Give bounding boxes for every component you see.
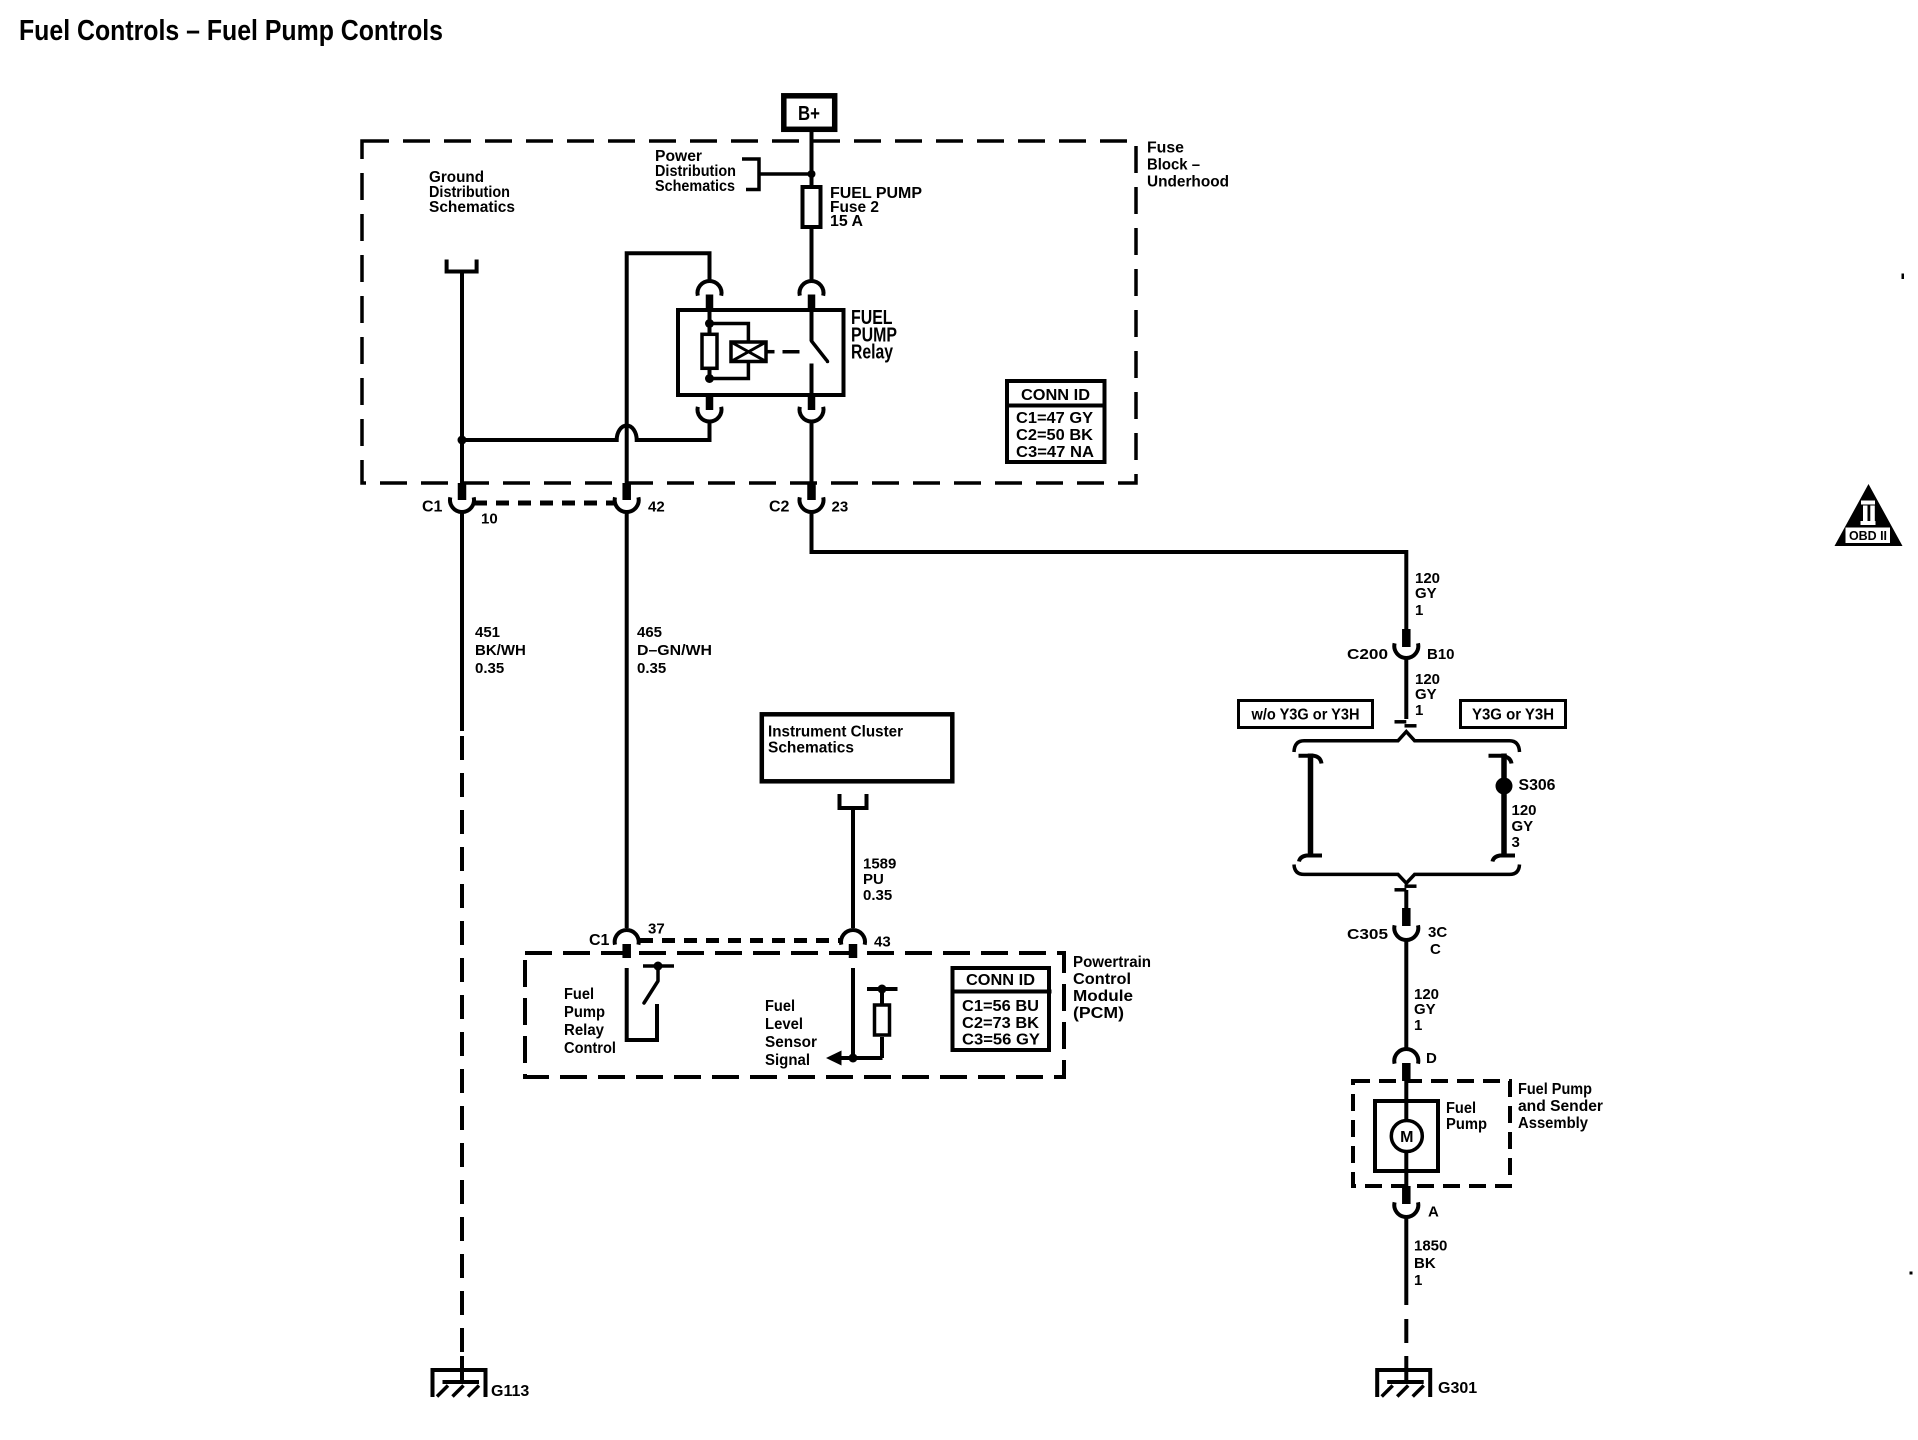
jumper wire with hop over 465 wire xyxy=(462,426,710,441)
wire 465 D-GN/WH: 42 to PCM C1-37 xyxy=(625,512,629,928)
ground G301 xyxy=(1375,1368,1432,1397)
right option branch: top serif xyxy=(1489,756,1512,764)
left option branch wire xyxy=(1308,754,1314,857)
relay pin 30 stub xyxy=(808,295,816,311)
svg-text:Powertrain: Powertrain xyxy=(1073,954,1151,971)
driver rail bar xyxy=(643,964,674,968)
PCM pullup resistor xyxy=(875,1005,890,1035)
scan speck lower right xyxy=(1910,1272,1913,1275)
svg-text:C1: C1 xyxy=(589,932,610,949)
svg-text:Control: Control xyxy=(564,1040,616,1057)
CONN ID table (fuse block) xyxy=(1007,381,1105,462)
svg-text:3: 3 xyxy=(1512,834,1520,851)
svg-text:0.35: 0.35 xyxy=(637,660,666,677)
connector C305 3C/C: stub xyxy=(1402,908,1411,926)
svg-text:23: 23 xyxy=(832,499,849,516)
junction dot top of coil xyxy=(705,319,714,328)
connector C305: arc xyxy=(1394,925,1418,940)
svg-text:GY: GY xyxy=(1414,1001,1436,1018)
svg-text:w/o Y3G or Y3H: w/o Y3G or Y3H xyxy=(1251,707,1360,724)
svg-text:Sensor: Sensor xyxy=(765,1034,817,1051)
junction dot bottom of coil xyxy=(705,374,714,383)
svg-text:10: 10 xyxy=(481,511,498,528)
connector C200 B10: stub xyxy=(1402,629,1411,647)
relay pin 86 stub (bottom left) xyxy=(706,395,714,410)
junction dot at fuse feed xyxy=(808,170,816,178)
wire C305 to D xyxy=(1404,940,1408,1050)
junction dot signal xyxy=(849,1054,858,1063)
option box: Y3G or Y3H xyxy=(1461,701,1566,728)
battery B+ box xyxy=(784,96,835,130)
wire: ground stub down to junction xyxy=(460,274,464,443)
svg-text:BK: BK xyxy=(1414,1255,1436,1272)
svg-text:Fuel: Fuel xyxy=(765,998,795,1015)
svg-text:0.35: 0.35 xyxy=(475,660,504,677)
svg-text:Module: Module xyxy=(1073,988,1133,1005)
resistor to internal rail xyxy=(880,989,884,1005)
bottom option brace xyxy=(1294,865,1520,884)
connector D arc xyxy=(1394,1049,1418,1064)
svg-text:GY: GY xyxy=(1415,585,1437,602)
svg-text:CONN ID: CONN ID xyxy=(1021,387,1090,404)
internal rail bar xyxy=(867,987,898,991)
svg-text:and Sender: and Sender xyxy=(1518,1098,1603,1115)
connector pin 42: stub xyxy=(622,483,631,500)
svg-text:1850: 1850 xyxy=(1414,1238,1447,1255)
svg-text:Block –: Block – xyxy=(1147,157,1200,174)
left option branch: bottom serif xyxy=(1299,856,1322,862)
svg-text:1: 1 xyxy=(1415,702,1423,719)
fuel pump and sender assembly dashed box xyxy=(1353,1081,1510,1186)
wire to C305 xyxy=(1404,890,1408,908)
option box: w/o Y3G or Y3H xyxy=(1239,701,1373,728)
junction dot ground/relay xyxy=(458,436,467,445)
svg-text:1: 1 xyxy=(1414,1017,1422,1034)
svg-text:1: 1 xyxy=(1415,602,1423,619)
relay pin 87 stub (bottom right) xyxy=(808,395,816,410)
svg-text:465: 465 xyxy=(637,624,662,641)
svg-text:(PCM): (PCM) xyxy=(1073,1005,1124,1022)
PCM pin 43 stub xyxy=(849,944,858,958)
wire B+ to fuse xyxy=(810,132,814,186)
wire pin86 down xyxy=(708,422,712,443)
driver pivot dot xyxy=(654,962,663,971)
dotted connector line 37-43 xyxy=(640,938,841,943)
wire 1589 inside PCM xyxy=(851,968,855,1058)
relay coil branch wire xyxy=(708,310,712,336)
left option branch: top serif xyxy=(1299,756,1322,764)
wire 1589 PU: cluster to PCM 43 xyxy=(851,810,855,928)
connector C200 B10: arc xyxy=(1394,643,1418,658)
svg-text:Signal: Signal xyxy=(765,1052,810,1069)
svg-text:GY: GY xyxy=(1415,686,1437,703)
relay pin 87 connector arc xyxy=(800,407,824,422)
svg-text:0.35: 0.35 xyxy=(863,887,892,904)
relay pin 30 connector arc (top right) xyxy=(800,281,824,296)
ground distribution continuation stub xyxy=(445,260,479,272)
PCM pin C1-37 stub xyxy=(622,944,631,958)
coil loop wires xyxy=(710,324,749,344)
bracket from Power Distribution label to wire xyxy=(742,159,759,190)
instrument cluster continuation stub xyxy=(838,794,869,808)
connector C2 pin 23: arc xyxy=(800,497,824,512)
svg-text:Schematics: Schematics xyxy=(655,178,735,195)
wire 451 BK/WH: C1-10 to G113 xyxy=(460,512,464,731)
wire fuse to relay pin 30 xyxy=(810,227,814,281)
Instrument Cluster Schematics box xyxy=(762,714,953,781)
svg-text:451: 451 xyxy=(475,624,500,641)
fuse F2: FUEL PUMP Fuse 2 15A xyxy=(803,187,821,227)
svg-text:B10: B10 xyxy=(1427,646,1455,663)
connector C1 pin 10: arc xyxy=(450,497,474,512)
wire end jog above top brace xyxy=(1395,720,1407,724)
relay pin 85 stub xyxy=(706,295,714,311)
wire 1850 BK: A to G301 xyxy=(1404,1217,1408,1305)
svg-text:Fuel: Fuel xyxy=(1446,1100,1476,1117)
wire below C200 xyxy=(1404,658,1408,719)
connector C1 pin 10: stub xyxy=(458,483,467,500)
rail junction dot xyxy=(878,985,887,994)
svg-text:OBD II: OBD II xyxy=(1849,529,1887,543)
relay resistor xyxy=(702,334,717,368)
svg-text:C3=56 GY: C3=56 GY xyxy=(962,1032,1040,1049)
svg-text:G301: G301 xyxy=(1438,1380,1477,1397)
scan speck right edge xyxy=(1902,274,1905,280)
connector A: arc xyxy=(1394,1202,1418,1217)
svg-text:C1=56 BU: C1=56 BU xyxy=(962,998,1039,1015)
fuel pump inner box xyxy=(1375,1101,1438,1171)
wire C2-23 over to right side xyxy=(812,512,1407,629)
ground G113 xyxy=(431,1368,488,1397)
svg-text:Fuel Controls – Fuel Pump Cont: Fuel Controls – Fuel Pump Controls xyxy=(19,15,443,47)
svg-text:Assembly: Assembly xyxy=(1518,1115,1588,1132)
PCM driver: wire from 37 down and U to contact xyxy=(627,968,657,1040)
svg-text:C2: C2 xyxy=(769,499,790,516)
svg-text:D: D xyxy=(1426,1050,1437,1067)
svg-text:Schematics: Schematics xyxy=(429,199,515,216)
svg-text:BK/WH: BK/WH xyxy=(475,642,526,659)
svg-text:M: M xyxy=(1400,1129,1413,1146)
svg-text:PU: PU xyxy=(863,871,884,888)
motor M circle xyxy=(1391,1121,1422,1152)
svg-text:C2=73 BK: C2=73 BK xyxy=(962,1015,1039,1032)
svg-text:3C: 3C xyxy=(1428,924,1447,941)
connector A: stub xyxy=(1402,1186,1411,1204)
CONN ID table (PCM) xyxy=(953,968,1050,1050)
relay solenoid coil (box with X) xyxy=(731,342,766,362)
relay switch upper contact xyxy=(810,310,814,341)
svg-text:42: 42 xyxy=(648,499,665,516)
right option branch wire xyxy=(1501,754,1507,857)
wire pin87 down to C2 xyxy=(810,422,814,484)
svg-text:Pump: Pump xyxy=(1446,1116,1487,1133)
relay K: FUEL PUMP Relay box xyxy=(678,310,844,395)
svg-text:C2=50 BK: C2=50 BK xyxy=(1016,427,1093,444)
svg-text:Underhood: Underhood xyxy=(1147,174,1229,191)
svg-text:C3=47 NA: C3=47 NA xyxy=(1016,444,1094,461)
svg-text:1589: 1589 xyxy=(863,856,896,873)
svg-text:B+: B+ xyxy=(798,103,820,125)
svg-text:C200: C200 xyxy=(1347,646,1388,663)
svg-text:Fuse: Fuse xyxy=(1147,140,1184,157)
connector pin 42: arc xyxy=(615,497,639,512)
relay pin 85 connector arc (top left) xyxy=(698,281,722,296)
fuse block - underhood dashed box xyxy=(362,141,1136,483)
connector C2 pin 23: stub xyxy=(807,483,816,500)
connector D stub xyxy=(1402,1063,1411,1081)
svg-text:C: C xyxy=(1430,941,1441,958)
wire motor to A xyxy=(1404,1152,1408,1187)
svg-text:Control: Control xyxy=(1073,971,1131,988)
svg-text:D–GN/WH: D–GN/WH xyxy=(637,642,712,659)
splice S306 xyxy=(1496,778,1513,795)
svg-text:C305: C305 xyxy=(1347,926,1388,943)
PCM pin 43 arc xyxy=(841,930,865,945)
OBD II symbol xyxy=(1835,484,1903,546)
wire D into pump xyxy=(1404,1081,1408,1120)
svg-text:G113: G113 xyxy=(491,1383,529,1400)
signal node arrow xyxy=(826,1051,842,1066)
svg-text:Relay: Relay xyxy=(851,342,894,364)
svg-text:C1=47 GY: C1=47 GY xyxy=(1016,410,1093,427)
svg-text:120: 120 xyxy=(1512,802,1537,819)
PCM dashed box xyxy=(525,953,1064,1077)
svg-text:GY: GY xyxy=(1512,818,1534,835)
pullup resistor leg xyxy=(880,1037,884,1058)
PCM pin C1-37 arc xyxy=(615,930,639,945)
svg-text:Level: Level xyxy=(765,1016,803,1033)
wire junction down to C1 pin 10 xyxy=(460,440,464,484)
wire start jog below bottom brace xyxy=(1405,884,1417,888)
svg-text:Pump: Pump xyxy=(564,1004,605,1021)
mechanical link dashes xyxy=(766,350,775,354)
svg-text:Fuel Pump: Fuel Pump xyxy=(1518,1081,1592,1098)
svg-text:Schematics: Schematics xyxy=(768,740,854,757)
svg-text:A: A xyxy=(1428,1204,1439,1221)
svg-text:C1: C1 xyxy=(422,499,443,516)
svg-text:37: 37 xyxy=(648,921,665,938)
svg-text:Fuel: Fuel xyxy=(564,986,594,1003)
dotted connector line C1-42 xyxy=(474,501,615,506)
svg-text:CONN ID: CONN ID xyxy=(966,972,1035,989)
wire resistor bottom xyxy=(708,368,712,381)
relay switch lower contact xyxy=(810,364,814,396)
svg-text:15 A: 15 A xyxy=(830,213,863,230)
svg-text:S306: S306 xyxy=(1519,777,1556,794)
top option brace xyxy=(1294,732,1520,752)
right option branch: bottom serif xyxy=(1493,856,1516,862)
svg-text:1: 1 xyxy=(1414,1272,1422,1289)
svg-text:Instrument Cluster: Instrument Cluster xyxy=(768,724,903,741)
relay switch arm xyxy=(812,341,828,362)
svg-text:43: 43 xyxy=(874,934,891,951)
driver switch arm xyxy=(644,968,658,1003)
svg-text:Y3G or Y3H: Y3G or Y3H xyxy=(1472,707,1554,724)
wire: relay pin 85 loop to pin 42 (corner) xyxy=(627,253,710,483)
svg-text:Relay: Relay xyxy=(564,1022,604,1039)
relay pin 86 connector arc xyxy=(698,407,722,422)
